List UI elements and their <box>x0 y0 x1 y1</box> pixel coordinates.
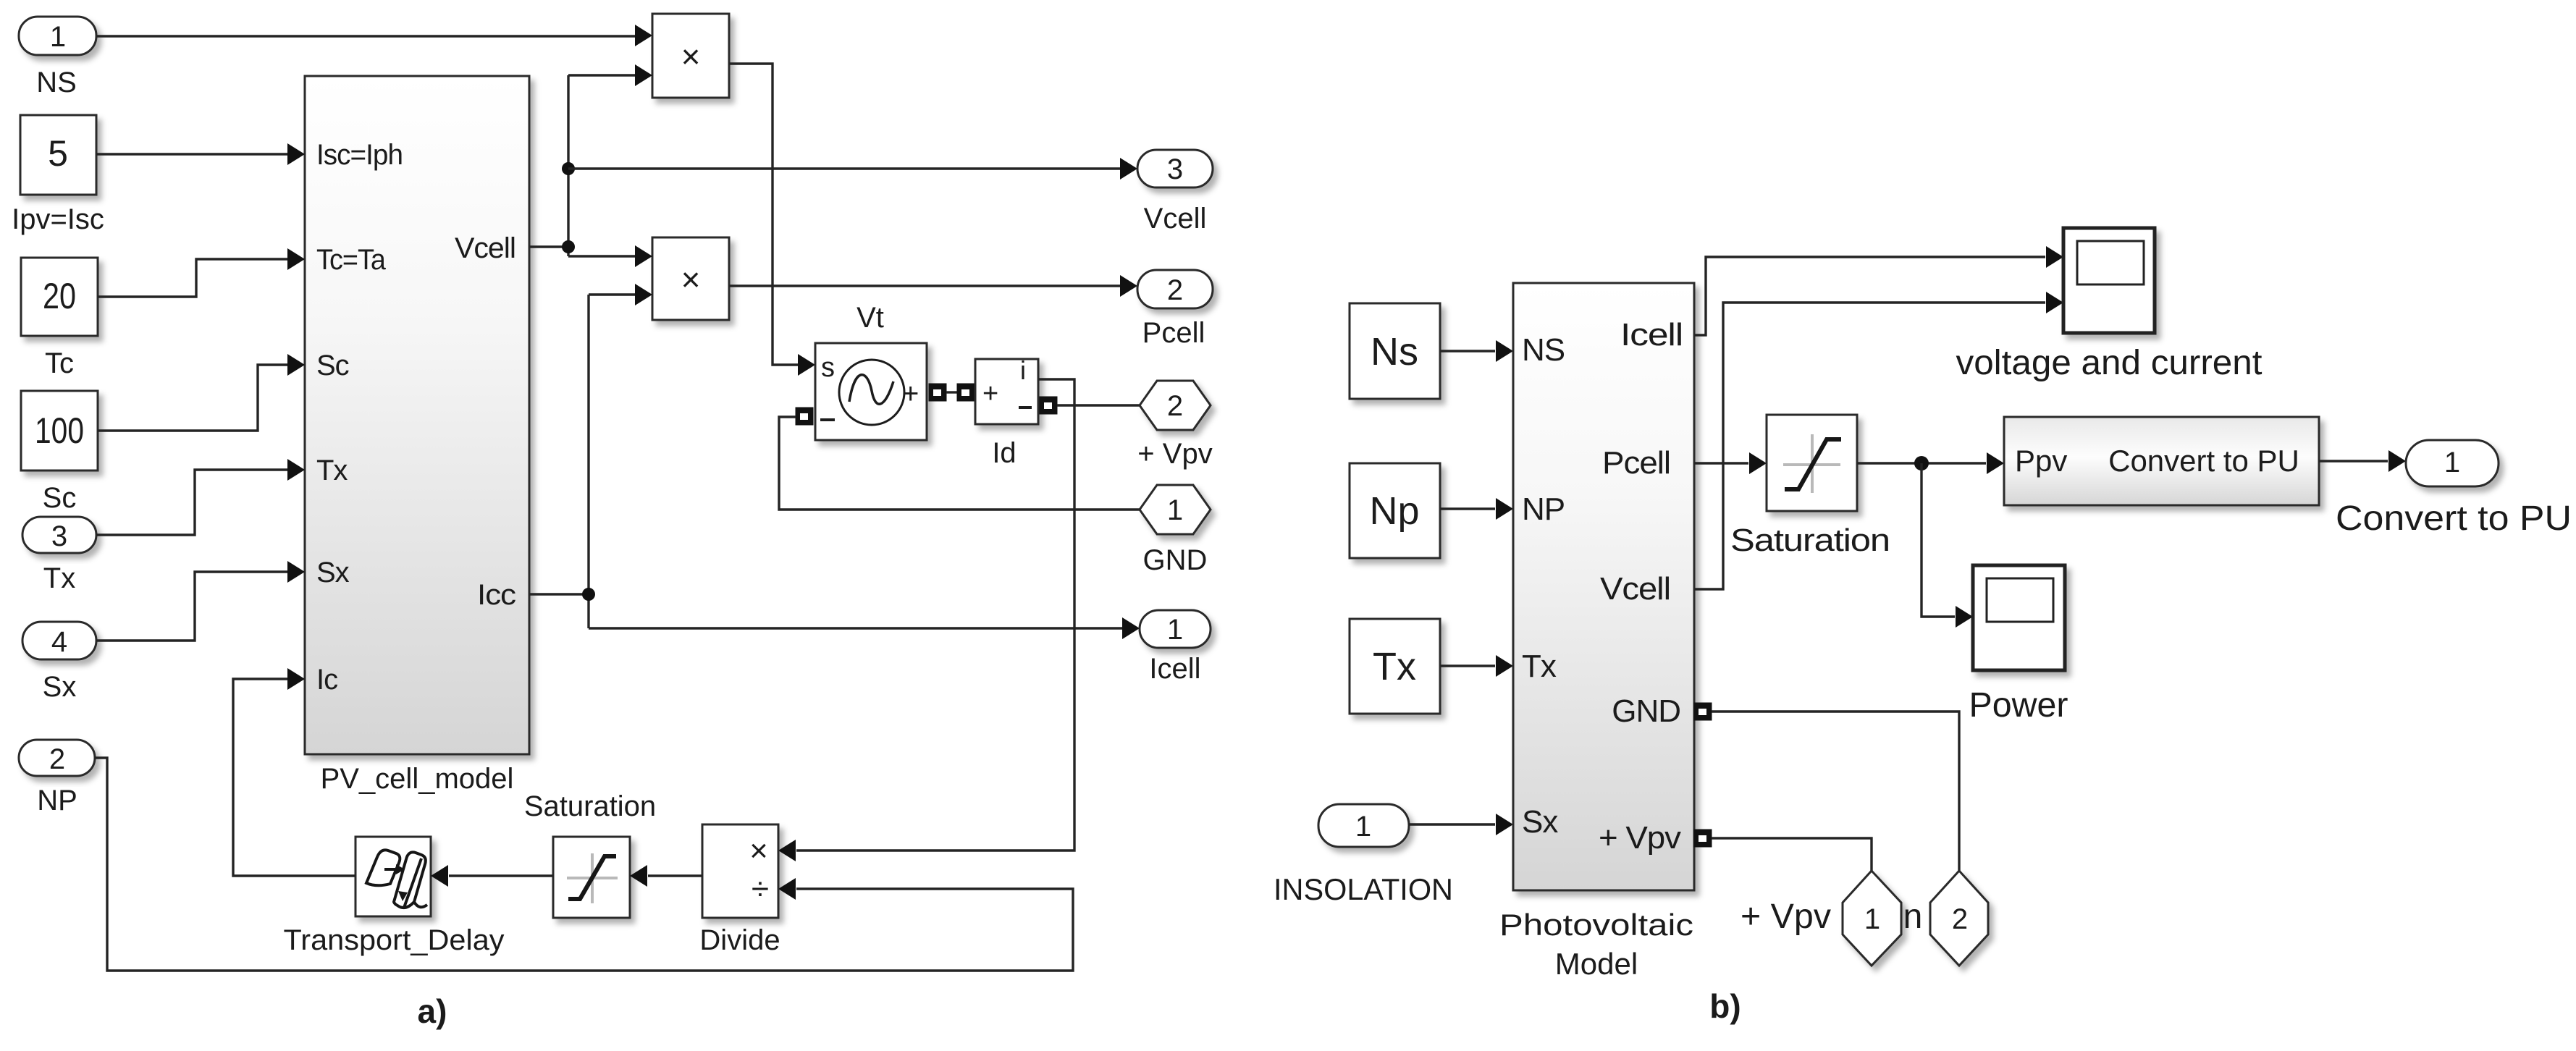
wire Id minus to +Vpv hexagon <box>1057 404 1140 406</box>
arrowhead scope input1 <box>2046 246 2063 268</box>
svg-text:Sx: Sx <box>316 557 350 588</box>
svg-text:Np: Np <box>1369 489 1419 533</box>
constant block Np <box>1350 463 1440 558</box>
output port oval 1 (Icell) <box>1140 610 1211 648</box>
saturation block (a) <box>553 837 630 918</box>
svg-text:÷: ÷ <box>752 871 769 907</box>
svg-text:PV_cell_model: PV_cell_model <box>321 763 514 795</box>
wire NS to product <box>96 35 636 37</box>
arrowhead NS <box>1496 340 1513 362</box>
svg-text:voltage and current: voltage and current <box>1956 344 2263 382</box>
svg-text:2: 2 <box>1167 390 1183 422</box>
arrowhead product1 second input <box>635 64 652 86</box>
svg-text:Model: Model <box>1555 947 1638 981</box>
connection port hexagon 2 (n) <box>1930 871 1988 966</box>
arrowhead output oval <box>2388 450 2406 472</box>
Vt minus port <box>796 408 813 425</box>
subsystem block Photovoltaic Model <box>1513 283 1694 890</box>
wire product2 out to Pcell oval <box>729 284 1120 287</box>
svg-text:3: 3 <box>51 520 67 552</box>
svg-text:2: 2 <box>1952 903 1968 935</box>
svg-text:+: + <box>902 378 919 410</box>
arrowhead Vt s input <box>798 354 815 376</box>
wire 100 to Sc <box>98 365 287 431</box>
arrowhead Icell oval <box>1122 617 1140 639</box>
svg-text:NP: NP <box>37 785 77 816</box>
svg-text:Sx: Sx <box>1522 804 1558 840</box>
svg-text:Isc=Iph: Isc=Iph <box>316 139 403 171</box>
GND port square (b) <box>1694 703 1712 720</box>
svg-text:2: 2 <box>49 743 65 775</box>
arrowhead scope input2 <box>2046 292 2063 313</box>
output port oval 1 (Convert to PU) <box>2406 440 2499 486</box>
+Vpv port square (b) <box>1694 830 1712 847</box>
input port oval 3 (Tx) <box>22 517 96 553</box>
wire Vcell to output oval 3 <box>568 167 1120 169</box>
wire Convert to PU to output oval <box>2319 460 2388 462</box>
svg-text:Sx: Sx <box>43 671 77 703</box>
svg-text:2: 2 <box>1167 274 1183 306</box>
Id plus port <box>957 384 975 401</box>
connection port hexagon 1 (+Vpv b) <box>1843 871 1901 966</box>
svg-text:20: 20 <box>43 276 76 316</box>
wire Vt plus to Id plus <box>946 391 958 393</box>
svg-text:Vcell: Vcell <box>1144 203 1207 235</box>
junction node Ppv <box>1914 456 1929 470</box>
svg-text:NS: NS <box>1522 332 1565 368</box>
svg-text:1: 1 <box>2444 447 2460 478</box>
svg-text:1: 1 <box>1167 494 1183 526</box>
wire GND to hexagon 2 <box>1712 712 1959 871</box>
svg-text:+ Vpv: + Vpv <box>1599 820 1681 856</box>
svg-text:Icell: Icell <box>1149 653 1200 685</box>
product block 1 (NS x Vcell) <box>652 14 729 98</box>
svg-text:Divide: Divide <box>699 924 780 956</box>
wire 20 to Tc=Ta <box>98 259 287 297</box>
constant block Ns <box>1350 303 1440 399</box>
wire 5 to Isc=Iph <box>96 153 287 155</box>
junction node Icc <box>582 588 595 601</box>
svg-text:Vcell: Vcell <box>1600 571 1670 607</box>
svg-text:Id: Id <box>992 437 1016 469</box>
svg-text:Ic: Ic <box>316 664 337 696</box>
input port oval 1 (NS) <box>19 17 96 55</box>
wire Transport_Delay out to Ic <box>233 679 355 876</box>
wire junction to Power scope <box>1922 463 1955 617</box>
svg-text:1: 1 <box>1167 614 1183 646</box>
constant block 100 <box>21 391 98 470</box>
svg-text:Ppv: Ppv <box>2015 444 2067 478</box>
svg-text:NS: NS <box>36 67 77 98</box>
arrowhead Vcell oval <box>1120 158 1137 180</box>
svg-text:1: 1 <box>1864 903 1880 935</box>
svg-text:Vcell: Vcell <box>455 232 515 264</box>
arrowhead NP <box>1496 498 1513 520</box>
wire Icc output <box>529 295 1122 628</box>
svg-text:100: 100 <box>35 410 84 451</box>
input port oval 4 (Sx) <box>22 622 96 659</box>
arrowhead Sx <box>1496 814 1513 835</box>
wire INSOLATION to Sx <box>1409 823 1495 825</box>
svg-text:Tx: Tx <box>1522 649 1557 684</box>
arrowhead Ic input <box>287 668 305 690</box>
wire +Vpv to hexagon 1 <box>1712 838 1872 871</box>
svg-text:Transport_Delay: Transport_Delay <box>284 924 505 956</box>
svg-text:×: × <box>749 833 768 869</box>
wire Id i output down to Divide <box>796 379 1074 850</box>
divide block <box>702 824 778 918</box>
svg-text:5: 5 <box>48 133 68 174</box>
constant block 20 <box>21 258 98 336</box>
svg-text:s: s <box>821 353 835 383</box>
wire Vcell output with junctions <box>529 75 636 256</box>
svg-text:Pcell: Pcell <box>1602 445 1670 481</box>
svg-text:3: 3 <box>1167 153 1183 185</box>
svg-text:+: + <box>982 379 998 409</box>
svg-text:Sc: Sc <box>43 482 77 514</box>
svg-text:b): b) <box>1709 987 1741 1025</box>
svg-text:Saturation: Saturation <box>1730 523 1890 558</box>
wire Icell to scope <box>1694 257 2045 335</box>
arrowhead Convert to PU input <box>1987 452 2004 474</box>
constant block 5 <box>20 115 96 195</box>
svg-text:NP: NP <box>1522 491 1565 527</box>
svg-text:Convert to PU: Convert to PU <box>2108 444 2299 478</box>
svg-text:Power: Power <box>1969 686 2068 725</box>
svg-text:+ Vpv: + Vpv <box>1137 438 1212 470</box>
arrowhead into product top input <box>635 25 652 46</box>
product block 2 (Vcell x Icc) <box>652 237 729 320</box>
scope voltage and current <box>2063 228 2155 333</box>
connection port hexagon 1 (GND) <box>1140 485 1211 534</box>
svg-text:i: i <box>1020 355 1026 385</box>
wire oval3 to Tx <box>96 470 287 535</box>
svg-text:GND: GND <box>1143 544 1208 576</box>
arrowhead Saturation input <box>1749 452 1767 474</box>
arrowhead Divide divisor input <box>778 878 796 900</box>
svg-text:Pcell: Pcell <box>1142 317 1205 349</box>
input port oval 1 (INSOLATION) <box>1318 804 1409 847</box>
svg-text:Tx: Tx <box>43 562 75 594</box>
svg-text:+ Vpv: + Vpv <box>1741 898 1831 936</box>
wire Saturation out to Transport_Delay <box>449 874 553 877</box>
wire Tx to Tx <box>1440 664 1495 667</box>
arrowhead Divide x input <box>778 840 796 861</box>
Vt plus port <box>929 384 946 401</box>
arrowhead Power input <box>1956 606 1973 628</box>
arrowhead Isc=Iph <box>287 143 305 165</box>
wire oval4 to Sx <box>96 572 287 641</box>
svg-text:1: 1 <box>1355 811 1371 843</box>
svg-text:×: × <box>681 38 701 75</box>
wire Divide out to Saturation <box>648 874 702 877</box>
wire Vcell to scope <box>1694 303 2045 589</box>
svg-text:Icell: Icell <box>1620 317 1683 353</box>
svg-text:1: 1 <box>50 21 66 53</box>
wire Np to NP <box>1440 507 1495 510</box>
svg-text:Convert to PU: Convert to PU <box>2336 499 2572 538</box>
wire product1 out to Vt s input <box>729 64 798 365</box>
arrowhead into Transport_Delay right <box>431 865 448 887</box>
svg-text:Ipv=Isc: Ipv=Isc <box>12 203 104 235</box>
svg-text:Photovoltaic: Photovoltaic <box>1499 908 1693 942</box>
arrowhead product2 second input <box>635 284 652 305</box>
input port oval 2 (NP) <box>19 740 95 776</box>
svg-text:Icc: Icc <box>477 579 515 611</box>
scope Power <box>1973 565 2065 670</box>
svg-text:a): a) <box>418 992 447 1030</box>
arrowhead into Saturation right <box>630 865 647 887</box>
svg-text:Sc: Sc <box>316 350 349 381</box>
output port oval 3 (Vcell) <box>1137 150 1213 187</box>
svg-text:INSOLATION: INSOLATION <box>1274 872 1453 906</box>
junction node Vcell/port <box>562 240 575 253</box>
svg-text:Tc: Tc <box>45 347 74 379</box>
svg-text:Tx: Tx <box>1373 645 1416 688</box>
svg-text:Vt: Vt <box>856 302 884 334</box>
controlled voltage source Vt <box>815 343 927 440</box>
arrowhead Tx <box>1496 655 1513 677</box>
svg-text:GND: GND <box>1612 693 1680 729</box>
output port oval 2 (Pcell) <box>1137 270 1213 308</box>
svg-text:×: × <box>681 261 701 298</box>
junction node Vcell/out <box>562 162 575 175</box>
arrowhead Tc=Ta <box>287 248 305 270</box>
arrowhead Sc <box>287 354 305 376</box>
saturation block (b) <box>1767 415 1857 511</box>
svg-text:Tc=Ta: Tc=Ta <box>316 244 387 276</box>
wire NP to Divide bottom input <box>95 758 1073 971</box>
wire Pcell to Saturation <box>1694 462 1748 464</box>
wire Vt minus to GND hexagon <box>779 417 1140 510</box>
svg-text:Tx: Tx <box>316 455 348 486</box>
connection port hexagon 2 (+Vpv) <box>1140 381 1211 430</box>
subsystem block PV_cell_model <box>305 76 529 754</box>
Id minus output port <box>1040 397 1057 414</box>
subsystem block Convert to PU <box>2004 417 2319 505</box>
constant block Tx <box>1350 619 1440 714</box>
arrowhead Tx <box>287 459 305 481</box>
wire Saturation to Convert to PU <box>1857 462 1986 464</box>
current measurement block Id <box>975 355 1038 424</box>
svg-text:4: 4 <box>51 626 67 658</box>
wire Ns to NS <box>1440 350 1495 352</box>
svg-text:n: n <box>1903 898 1923 936</box>
svg-text:Saturation: Saturation <box>524 790 656 822</box>
arrowhead product2 first input <box>635 245 652 267</box>
transport delay block <box>355 837 431 916</box>
svg-text:Ns: Ns <box>1371 330 1418 373</box>
arrowhead Sx <box>287 561 305 583</box>
arrowhead Pcell oval <box>1120 275 1137 297</box>
